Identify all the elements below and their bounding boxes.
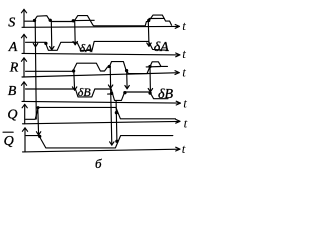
wire S pulse2 threshold chord — [75, 19, 94, 21]
axis Qbar horizontal with t arrow — [23, 147, 181, 152]
node S pulse1 rise dot — [33, 19, 36, 22]
wire arrow Q rise down to Qbar fall — [36, 108, 40, 135]
node Q rise top dot — [37, 106, 40, 109]
node R pulse1 rise dot — [72, 69, 75, 72]
svg-text:t: t — [182, 46, 186, 61]
wire arrow S rise3 down to A — [147, 21, 151, 46]
svg-text:t: t — [182, 64, 186, 79]
wire A waveform — [26, 41, 169, 50]
wire S pulse3 threshold chord — [149, 17, 164, 19]
svg-text:t: t — [184, 116, 188, 131]
axis S vertical — [21, 9, 26, 27]
wire B dip threshold stub — [108, 93, 112, 95]
node Q fall dot — [115, 111, 118, 114]
svg-text:t: t — [183, 95, 187, 110]
svg-text:A: A — [8, 40, 18, 55]
axis B vertical — [21, 82, 26, 102]
axis Q horizontal with t arrow — [23, 119, 181, 123]
svg-text:δA: δA — [154, 40, 170, 55]
wire arrow S fall1 down to A — [50, 21, 54, 50]
svg-text:t: t — [182, 18, 186, 33]
wire S waveform — [25, 15, 172, 26]
axis Q vertical — [22, 104, 27, 124]
wire arrow S rise1 down to Q rise — [33, 21, 37, 119]
wire Qbar waveform — [26, 136, 173, 148]
node Qbar rise dot — [115, 140, 118, 143]
node S pulse2 rise dot — [72, 19, 75, 22]
node S pulse1 fall dot — [49, 19, 52, 22]
wire arrow R rise1 down to B — [72, 71, 76, 90]
wire arrow S rise2 down to A — [73, 21, 77, 45]
svg-text:δA: δA — [80, 41, 94, 55]
wire arrow R fall2 down to B — [125, 71, 129, 89]
node A fall1 dot — [44, 42, 47, 45]
node B fall2 dot — [148, 91, 151, 94]
node Qbar fall dot — [38, 135, 41, 138]
node R pulse2 fall dot — [125, 69, 128, 72]
axis B horizontal with t arrow — [22, 101, 181, 105]
wire arrow R rise2 down to B and Qbar — [108, 66, 114, 145]
wire Q waveform — [26, 107, 176, 119]
wire B waveform — [26, 89, 169, 100]
node B dip end dot — [123, 91, 126, 94]
svg-text:δB: δB — [78, 85, 92, 99]
node R pulse2 rise dot — [108, 65, 111, 68]
svg-text:R: R — [9, 61, 19, 76]
node B dip start dot — [110, 92, 113, 95]
axis R vertical — [21, 58, 26, 77]
node R pulse3 rise dot — [148, 65, 151, 68]
svg-text:δB: δB — [158, 87, 174, 102]
wire link Q fall to Qbar rise — [115, 101, 118, 141]
node S pulse3 rise dot — [147, 19, 150, 22]
node Qbar label with overbar — [3, 132, 14, 149]
axis R horizontal with t arrow — [22, 71, 179, 77]
svg-text:B: B — [8, 84, 17, 99]
svg-text:t: t — [182, 141, 186, 156]
axis S horizontal with t arrow — [22, 25, 180, 29]
svg-text:Q: Q — [4, 134, 14, 149]
svg-text:S: S — [8, 16, 15, 31]
svg-text:б: б — [95, 156, 102, 171]
axis A horizontal with t arrow — [22, 53, 180, 57]
wire arrow R rise3 down to B — [148, 67, 152, 92]
wire R pulse3 threshold stub — [146, 66, 160, 68]
wire R waveform — [26, 62, 168, 74]
axis Qbar vertical — [22, 128, 27, 152]
axis A vertical — [21, 34, 26, 53]
svg-text:Q: Q — [7, 107, 17, 122]
